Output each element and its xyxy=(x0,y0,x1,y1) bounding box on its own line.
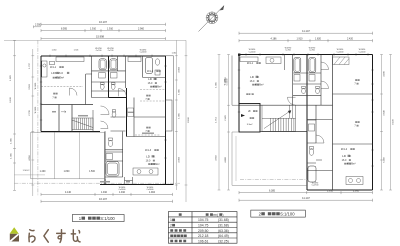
svg-text:4.550: 4.550 xyxy=(225,76,227,82)
site south dash-dot line xyxy=(14,182,180,184)
WC door arc mid column xyxy=(119,89,127,97)
parking labels xyxy=(40,171,96,173)
svg-text:4.140: 4.140 xyxy=(65,191,72,194)
svg-text:106.61: 106.61 xyxy=(198,239,208,243)
room label unit1 xyxy=(50,66,69,80)
window labels left of 1F left wall xyxy=(35,83,37,113)
kitchen sink box xyxy=(49,62,54,65)
dim texts 1F bottom segments xyxy=(65,191,156,194)
2F toilets pair xyxy=(302,88,306,93)
site boundary north line xyxy=(4,39,186,41)
svg-text:1.910: 1.910 xyxy=(107,27,114,30)
1F outer wall left xyxy=(40,56,42,132)
logo glyph ra xyxy=(29,230,35,242)
2F west rotated texts xyxy=(225,76,227,162)
1F wall west side of south wing xyxy=(104,132,106,185)
svg-text:C=700: C=700 xyxy=(309,50,315,52)
unit divider wall upper xyxy=(108,56,110,98)
compass north arrow flag xyxy=(220,5,225,10)
entry door arcs xyxy=(101,106,110,115)
roof area inner line xyxy=(235,136,237,181)
svg-text:2.960: 2.960 xyxy=(353,189,360,192)
svg-text:212.18: 212.18 xyxy=(198,234,208,238)
svg-text:(31.68): (31.68) xyxy=(218,218,229,222)
wet block west wall upper xyxy=(86,74,92,105)
svg-text:1.910: 1.910 xyxy=(297,37,304,40)
svg-text:8.595: 8.595 xyxy=(61,27,68,30)
svg-text:47.39m²: 47.39m² xyxy=(255,84,264,87)
svg-text:1.365: 1.365 xyxy=(215,81,217,87)
logo house body xyxy=(10,234,19,242)
svg-text:2: 2 xyxy=(170,224,172,228)
area table header xyxy=(179,213,182,216)
2F west dim line xyxy=(227,55,230,191)
2F se toilet xyxy=(309,149,313,156)
2F outer wall top xyxy=(239,54,373,56)
svg-text:1.820: 1.820 xyxy=(315,37,322,40)
svg-text:C=2000: C=2000 xyxy=(359,51,366,53)
1F outer wall east xyxy=(165,56,167,185)
svg-text:16.0: 16.0 xyxy=(148,82,153,85)
svg-text:3.3m²: 3.3m² xyxy=(247,123,253,126)
dim line 2F bottom segments xyxy=(239,191,373,194)
svg-text:2.550: 2.550 xyxy=(35,24,42,27)
storage room label xyxy=(247,110,258,126)
dim line 1F top segments xyxy=(41,29,166,32)
2F outer wall bottom xyxy=(307,189,373,191)
2F outer wall left xyxy=(238,55,240,133)
LDK door arc xyxy=(70,88,78,96)
dim line 2.550 top-left xyxy=(34,25,42,28)
svg-text:16.107: 16.107 xyxy=(99,20,107,24)
area table row 2F xyxy=(170,224,175,228)
bath tub pair east xyxy=(110,59,117,70)
dim texts 2F bottom segments xyxy=(269,189,360,192)
unit divider wall lower xyxy=(109,88,127,137)
bedroom labels unit2 xyxy=(145,95,150,133)
dim line 2F top segments xyxy=(239,39,373,42)
2F east dim line outer xyxy=(389,55,392,191)
logo house roof xyxy=(10,227,19,234)
left dim line inner xyxy=(31,49,34,196)
bedroom label unit1 xyxy=(52,93,57,100)
1F porch east strip xyxy=(166,56,174,185)
svg-text:K 16.0: K 16.0 xyxy=(55,71,64,75)
dim line 15.998 xyxy=(41,37,166,40)
svg-text:47.39m²: 47.39m² xyxy=(55,77,64,80)
2F room label left xyxy=(247,62,264,87)
area table row building xyxy=(170,240,186,243)
svg-text:1.737: 1.737 xyxy=(29,62,31,68)
svg-text:K: K xyxy=(155,77,157,81)
svg-text:104.75: 104.75 xyxy=(198,224,208,228)
svg-text:C=2000: C=2000 xyxy=(249,51,256,53)
svg-text:(64.49): (64.49) xyxy=(218,234,229,238)
interior wall 2F east block xyxy=(332,55,334,191)
svg-text:1.910: 1.910 xyxy=(327,189,334,192)
svg-text:16.107: 16.107 xyxy=(99,197,107,201)
storage arrow mark xyxy=(241,114,245,117)
svg-text:2.420: 2.420 xyxy=(225,114,227,120)
svg-text:C=700: C=700 xyxy=(96,50,102,52)
storage room 2F xyxy=(239,104,260,133)
svg-text:4.186: 4.186 xyxy=(384,70,386,76)
entrance step xyxy=(125,177,133,184)
south wing washbasin xyxy=(106,154,113,160)
dim line 1F top total xyxy=(41,23,166,26)
svg-text:1.910: 1.910 xyxy=(90,27,97,30)
mid wall y117 xyxy=(111,117,126,131)
svg-text:1: 1 xyxy=(170,218,172,222)
parking inner line xyxy=(14,174,45,176)
svg-text:1.800: 1.800 xyxy=(64,171,70,173)
parking divider 2 xyxy=(78,132,80,179)
south wing: toilet xyxy=(108,140,112,146)
bay window east xyxy=(166,100,173,131)
svg-text:2F1-1: 2F1-1 xyxy=(247,62,254,65)
svg-text:9.100: 9.100 xyxy=(10,96,12,102)
south wing: bath tub xyxy=(106,162,119,177)
2F closet hatch top xyxy=(333,57,350,65)
kitchen counter west wall xyxy=(42,61,47,77)
east rotated dim texts xyxy=(179,66,181,162)
stair bottom wall 2F xyxy=(260,131,307,133)
window labels below bottom wall xyxy=(119,187,154,191)
interior walls unit east bath xyxy=(143,56,166,78)
2F washbasins pair xyxy=(294,75,300,82)
svg-text:47.39m²: 47.39m² xyxy=(153,86,162,89)
stairs unit1 xyxy=(72,118,93,130)
compass outer ring with teeth xyxy=(206,12,218,24)
interior wall 2F corridor xyxy=(239,104,333,106)
svg-text:K: K xyxy=(349,154,351,158)
area table row construction xyxy=(170,235,186,238)
2F stair door arc xyxy=(288,97,296,105)
svg-text:(31.68): (31.68) xyxy=(218,224,229,228)
left site dim line xyxy=(13,40,16,190)
svg-text:1.820: 1.820 xyxy=(10,74,12,80)
svg-text:(32.25): (32.25) xyxy=(218,239,229,243)
interior wall LDK/bedroom unit1 xyxy=(41,105,93,132)
interior walls 2F wet block pair xyxy=(293,55,321,106)
logo glyph su xyxy=(57,230,65,243)
svg-text:C=2000: C=2000 xyxy=(337,51,344,53)
parking divider 1 xyxy=(54,132,56,179)
2F kitchen counter right unit xyxy=(346,177,363,185)
toilet pair xyxy=(100,84,104,89)
svg-text:1.365: 1.365 xyxy=(179,88,181,94)
svg-text:3.503: 3.503 xyxy=(29,83,31,89)
south wing interior walls xyxy=(105,132,123,178)
svg-text:1.365: 1.365 xyxy=(11,152,13,158)
svg-text:C=700: C=700 xyxy=(285,50,291,52)
2F east rotated texts inner xyxy=(384,70,386,162)
title box 2F xyxy=(251,210,305,217)
site dash-dot line right plan xyxy=(240,179,307,181)
washer box unit2 xyxy=(155,70,160,75)
2F se bath tub xyxy=(308,166,316,182)
title box 1F xyxy=(72,215,124,222)
hall text above stairs xyxy=(78,115,88,116)
washbasin pair xyxy=(99,73,106,79)
svg-text:4.094: 4.094 xyxy=(179,156,181,162)
east dim line outer xyxy=(185,40,188,202)
dim line 2F bottom total xyxy=(239,199,373,202)
dim line 1F bottom segments xyxy=(41,193,173,196)
svg-text:1.060: 1.060 xyxy=(172,53,177,55)
svg-text:1F1-3: 1F1-3 xyxy=(145,149,152,152)
WC fixture mid xyxy=(112,112,116,117)
bath tub pair west xyxy=(99,59,106,70)
stair side wall xyxy=(92,110,94,132)
svg-text:47.39m²: 47.39m² xyxy=(151,163,160,166)
svg-text:2.420: 2.420 xyxy=(347,37,354,40)
svg-text:4.094: 4.094 xyxy=(179,66,181,72)
open roof area below (1F roof) xyxy=(232,132,307,185)
2F door arc se xyxy=(316,135,324,143)
property centerline (dash-dot) xyxy=(37,40,39,196)
dim texts 2F top segments xyxy=(271,37,354,40)
2F right unit bedroom labels xyxy=(354,79,359,127)
svg-text:209.50: 209.50 xyxy=(198,229,208,233)
2F unit divider wall xyxy=(306,55,308,191)
parking terrace outline xyxy=(31,132,105,179)
svg-text:1F1-1: 1F1-1 xyxy=(50,66,57,69)
1F outer wall top xyxy=(41,55,166,57)
svg-text:C=2000: C=2000 xyxy=(140,52,147,54)
svg-text:C=2700: C=2700 xyxy=(312,184,319,186)
2F right unit room label xyxy=(341,148,356,166)
2F west outer rotated texts xyxy=(215,81,217,160)
kitchen counter unit2 xyxy=(128,57,141,62)
svg-text:47.39m²: 47.39m² xyxy=(347,163,356,166)
area table frame xyxy=(168,212,237,244)
svg-text:15.998: 15.998 xyxy=(96,35,104,39)
svg-text:4.186: 4.186 xyxy=(271,37,278,40)
2F corridor door arcs xyxy=(321,62,329,89)
svg-text:1.501.2: 1.501.2 xyxy=(23,170,31,172)
2F bath tubs pair xyxy=(294,58,301,73)
svg-text:(63.36): (63.36) xyxy=(218,229,229,233)
svg-text:8.190: 8.190 xyxy=(188,116,190,122)
svg-text:1.910: 1.910 xyxy=(119,191,126,194)
svg-text:1F1-2: 1F1-2 xyxy=(147,70,154,73)
logo house stripe xyxy=(10,234,18,241)
room label unit2 xyxy=(147,70,162,89)
compass north line xyxy=(199,6,225,32)
svg-text:C=700: C=700 xyxy=(108,50,114,52)
svg-text:1.910: 1.910 xyxy=(101,191,108,194)
svg-text:K: K xyxy=(257,75,259,79)
svg-text:11.147: 11.147 xyxy=(302,196,310,200)
svg-text:1.500: 1.500 xyxy=(89,171,95,173)
svg-text:2.730: 2.730 xyxy=(29,109,31,115)
2F bedroom label left xyxy=(246,93,253,96)
south wing kitchen counter xyxy=(133,168,158,175)
svg-text:W.1690: W.1690 xyxy=(35,83,37,89)
2F east bedroom divider wall xyxy=(333,94,373,144)
svg-text:2F1-2: 2F1-2 xyxy=(341,148,348,151)
logo glyph mu xyxy=(71,230,80,242)
south wing closet dashes xyxy=(135,134,160,136)
svg-text:S:1/100: S:1/100 xyxy=(280,211,295,216)
closet dashed line unit east xyxy=(127,98,166,137)
interior wall wet block pair xyxy=(92,56,126,98)
west balcony 2F xyxy=(232,56,239,106)
svg-text:m²(: m²( xyxy=(213,213,219,217)
svg-text:9.100: 9.100 xyxy=(392,118,394,124)
2F se washbasin xyxy=(309,124,315,131)
svg-text:4.868: 4.868 xyxy=(225,156,227,162)
window labels above 1F top wall xyxy=(52,48,177,55)
LDK dashed tatami line xyxy=(41,85,83,87)
bath tub unit2 (vertical) xyxy=(146,58,153,74)
porch label bottom xyxy=(100,181,110,182)
svg-text:2.960: 2.960 xyxy=(138,27,145,30)
1F outer wall bottom xyxy=(100,183,174,185)
svg-text:1.050: 1.050 xyxy=(52,49,57,51)
corner post top-left xyxy=(238,54,240,56)
PS shaft boxes xyxy=(128,108,134,112)
svg-text:6.385: 6.385 xyxy=(269,189,276,192)
left rotated dim texts inner xyxy=(29,62,31,160)
svg-text:3.640: 3.640 xyxy=(384,109,386,115)
area table row total floor xyxy=(170,229,186,232)
2F kitchen counter left unit xyxy=(240,57,258,62)
svg-text:5.460: 5.460 xyxy=(384,156,386,162)
1F wall bottom of west wing xyxy=(41,131,100,133)
2F outer wall right xyxy=(372,55,374,191)
storage label lower west xyxy=(52,111,56,112)
dim line 1F bottom total xyxy=(41,200,173,203)
south wing room labels xyxy=(145,149,160,166)
svg-text:1.400: 1.400 xyxy=(40,171,46,173)
2F west outer dim line xyxy=(218,55,221,191)
svg-text:16.0: 16.0 xyxy=(342,159,347,162)
svg-text:W.1690: W.1690 xyxy=(35,107,37,113)
dim line 2F top total xyxy=(239,32,373,35)
window labels above 2F top wall xyxy=(249,48,366,54)
svg-text:1.365: 1.365 xyxy=(11,137,13,143)
svg-text:K: K xyxy=(153,155,155,159)
kitchen counter unit1 xyxy=(56,57,84,62)
svg-text:S:1/100: S:1/100 xyxy=(100,216,115,221)
svg-text:): ) xyxy=(222,213,223,217)
east dim line inner xyxy=(175,40,178,190)
logo text らくすむ xyxy=(29,230,80,243)
svg-text:104.75: 104.75 xyxy=(198,218,208,222)
logo glyph ku xyxy=(44,230,48,243)
toilet unit2 xyxy=(155,59,159,65)
window ticks 2F top wall xyxy=(238,53,374,166)
stairs 2F xyxy=(262,105,296,131)
2F east dim line inner xyxy=(380,55,383,191)
svg-text:1.505: 1.505 xyxy=(74,49,79,51)
svg-text:16.0: 16.0 xyxy=(250,80,255,83)
svg-text:1.365: 1.365 xyxy=(179,112,181,118)
2F corridor walls se xyxy=(307,119,333,170)
svg-text:1.904: 1.904 xyxy=(149,191,156,194)
svg-text:11.147: 11.147 xyxy=(302,29,310,33)
svg-text:1.751: 1.751 xyxy=(215,116,217,122)
area table row 1F xyxy=(170,218,175,222)
svg-text:4.550: 4.550 xyxy=(215,154,217,160)
window tick marks on top wall xyxy=(40,55,167,158)
2F se wing fixtures column xyxy=(307,105,322,163)
